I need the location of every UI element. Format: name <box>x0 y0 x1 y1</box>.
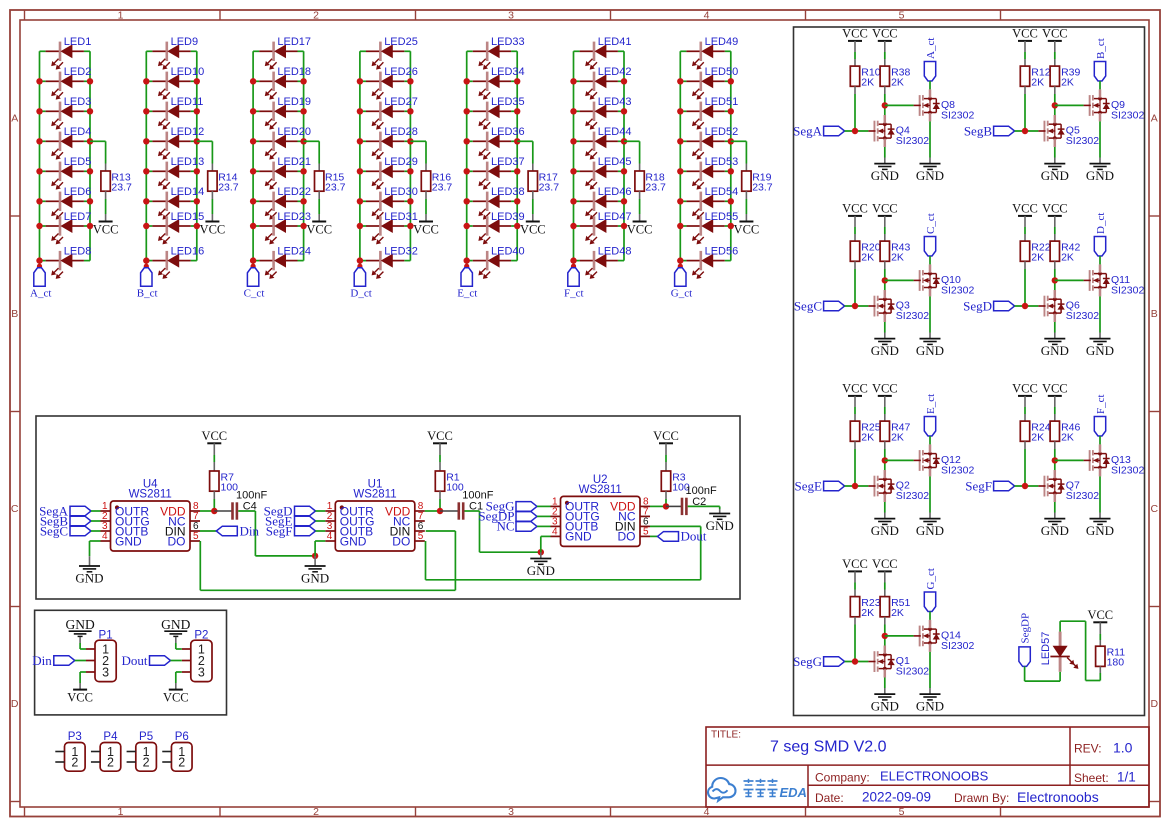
svg-text:2K: 2K <box>1031 252 1044 264</box>
svg-text:GND: GND <box>1041 168 1069 183</box>
svg-text:GND: GND <box>65 617 94 632</box>
svg-text:2022-09-09: 2022-09-09 <box>862 790 931 805</box>
svg-text:SegD: SegD <box>963 298 992 313</box>
svg-text:23.7: 23.7 <box>325 182 346 194</box>
svg-text:SI2302: SI2302 <box>1111 284 1144 296</box>
svg-text:Company:: Company: <box>815 771 870 785</box>
svg-text:1/1: 1/1 <box>1117 770 1136 785</box>
svg-text:Din: Din <box>32 653 52 668</box>
svg-text:3: 3 <box>102 665 109 679</box>
svg-text:A_ct: A_ct <box>30 288 51 300</box>
svg-text:SegA: SegA <box>793 123 823 138</box>
svg-text:2K: 2K <box>861 607 874 619</box>
svg-text:GND: GND <box>916 343 944 358</box>
svg-text:LED28: LED28 <box>384 126 418 138</box>
svg-text:LED25: LED25 <box>384 36 418 48</box>
svg-text:VCC: VCC <box>200 223 226 237</box>
svg-text:VCC: VCC <box>67 691 93 705</box>
svg-text:LED34: LED34 <box>491 66 525 78</box>
svg-text:DO: DO <box>618 530 636 544</box>
svg-text:100nF: 100nF <box>236 490 267 502</box>
svg-text:2: 2 <box>107 755 114 769</box>
svg-text:A: A <box>1151 113 1158 125</box>
svg-text:SI2302: SI2302 <box>1066 490 1099 502</box>
svg-text:C_ct: C_ct <box>244 288 265 300</box>
svg-text:GND: GND <box>1086 168 1114 183</box>
svg-text:B_ct: B_ct <box>1095 38 1107 59</box>
svg-text:D_ct: D_ct <box>350 288 371 300</box>
svg-text:LED50: LED50 <box>705 66 739 78</box>
svg-text:4: 4 <box>552 526 558 537</box>
svg-text:E_ct: E_ct <box>925 394 937 414</box>
svg-text:LED36: LED36 <box>491 126 525 138</box>
svg-text:LED35: LED35 <box>491 96 525 108</box>
svg-text:LED41: LED41 <box>598 36 632 48</box>
svg-text:C: C <box>11 503 19 515</box>
svg-text:B_ct: B_ct <box>137 288 158 300</box>
svg-text:5: 5 <box>418 531 424 542</box>
svg-text:GND: GND <box>916 523 944 538</box>
svg-text:GND: GND <box>1041 343 1069 358</box>
svg-text:REV:: REV: <box>1074 741 1102 755</box>
svg-text:3: 3 <box>508 806 514 818</box>
svg-text:2: 2 <box>143 755 150 769</box>
svg-text:LED29: LED29 <box>384 156 418 168</box>
svg-text:VCC: VCC <box>734 223 760 237</box>
svg-text:LED40: LED40 <box>491 245 525 257</box>
svg-text:LED43: LED43 <box>598 96 632 108</box>
svg-text:2: 2 <box>313 806 319 818</box>
svg-text:2K: 2K <box>1061 432 1074 444</box>
svg-text:GND: GND <box>161 617 190 632</box>
svg-text:VCC: VCC <box>93 223 119 237</box>
svg-text:F_ct: F_ct <box>1095 394 1107 414</box>
svg-text:1.0: 1.0 <box>1113 739 1133 755</box>
svg-text:2K: 2K <box>1061 252 1074 264</box>
svg-text:SegF: SegF <box>965 478 992 493</box>
svg-text:VCC: VCC <box>1012 202 1038 216</box>
svg-text:GND: GND <box>871 699 899 714</box>
svg-text:2K: 2K <box>891 432 904 444</box>
svg-text:VCC: VCC <box>201 429 227 443</box>
svg-text:LED20: LED20 <box>277 126 311 138</box>
svg-text:SI2302: SI2302 <box>896 666 929 678</box>
svg-text:SegDP: SegDP <box>1019 613 1031 644</box>
svg-text:SI2302: SI2302 <box>1111 464 1144 476</box>
svg-text:LED54: LED54 <box>705 186 739 198</box>
svg-text:SI2302: SI2302 <box>1111 109 1144 121</box>
svg-text:23.7: 23.7 <box>752 182 773 194</box>
svg-text:LED53: LED53 <box>705 156 739 168</box>
svg-text:TITLE:: TITLE: <box>711 730 741 741</box>
svg-text:B: B <box>11 308 18 320</box>
svg-text:VCC: VCC <box>653 429 679 443</box>
svg-text:LED11: LED11 <box>171 96 204 108</box>
svg-text:G_ct: G_ct <box>925 568 937 589</box>
svg-text:LED2: LED2 <box>64 66 92 78</box>
svg-text:VCC: VCC <box>627 223 653 237</box>
svg-text:LED17: LED17 <box>277 36 311 48</box>
svg-text:23.7: 23.7 <box>539 182 560 194</box>
svg-text:LED27: LED27 <box>384 96 418 108</box>
svg-text:2K: 2K <box>861 252 874 264</box>
svg-text:LED42: LED42 <box>598 66 632 78</box>
svg-text:5: 5 <box>643 526 649 537</box>
svg-text:WS2811: WS2811 <box>579 484 622 496</box>
svg-text:LED10: LED10 <box>171 66 205 78</box>
svg-text:2K: 2K <box>1031 77 1044 89</box>
svg-text:VCC: VCC <box>1042 27 1068 41</box>
svg-text:LED37: LED37 <box>491 156 525 168</box>
svg-text:Din: Din <box>240 523 260 538</box>
svg-text:G_ct: G_ct <box>671 288 692 300</box>
svg-text:VCC: VCC <box>163 691 189 705</box>
svg-text:NC: NC <box>496 519 514 534</box>
svg-text:VCC: VCC <box>842 27 868 41</box>
svg-text:A: A <box>11 113 18 125</box>
svg-text:Sheet:: Sheet: <box>1074 771 1109 785</box>
svg-text:P4: P4 <box>103 731 118 743</box>
svg-text:VCC: VCC <box>1012 27 1038 41</box>
svg-text:180: 180 <box>1107 657 1125 669</box>
svg-text:2K: 2K <box>861 432 874 444</box>
svg-text:4: 4 <box>704 9 710 21</box>
svg-text:23.7: 23.7 <box>218 182 239 194</box>
svg-text:2K: 2K <box>891 252 904 264</box>
svg-text:LED4: LED4 <box>64 126 92 138</box>
svg-text:LED3: LED3 <box>64 96 92 108</box>
svg-text:LED39: LED39 <box>491 211 525 223</box>
svg-text:SI2302: SI2302 <box>896 310 929 322</box>
svg-text:2: 2 <box>313 9 319 21</box>
svg-text:SI2302: SI2302 <box>941 284 974 296</box>
svg-text:Drawn By:: Drawn By: <box>954 791 1009 805</box>
svg-text:DO: DO <box>392 534 410 548</box>
svg-text:F_ct: F_ct <box>564 288 584 300</box>
svg-text:D: D <box>11 698 19 710</box>
svg-text:GND: GND <box>1086 343 1114 358</box>
svg-text:C_ct: C_ct <box>925 213 937 234</box>
svg-text:LED7: LED7 <box>64 211 92 223</box>
svg-text:LED9: LED9 <box>171 36 199 48</box>
svg-text:LED21: LED21 <box>277 156 311 168</box>
svg-text:23.7: 23.7 <box>432 182 453 194</box>
svg-text:4: 4 <box>327 531 333 542</box>
svg-text:SegC: SegC <box>40 523 68 538</box>
svg-text:GND: GND <box>1086 523 1114 538</box>
svg-text:2K: 2K <box>1031 432 1044 444</box>
svg-text:2K: 2K <box>1061 77 1074 89</box>
svg-text:C2: C2 <box>692 496 706 508</box>
svg-text:LED48: LED48 <box>598 245 632 257</box>
svg-text:LED49: LED49 <box>705 36 739 48</box>
svg-text:D: D <box>1151 698 1159 710</box>
svg-text:1: 1 <box>118 9 124 21</box>
svg-text:P1: P1 <box>99 630 113 642</box>
svg-text:LED8: LED8 <box>64 245 92 257</box>
svg-text:LED52: LED52 <box>705 126 739 138</box>
svg-text:Date:: Date: <box>815 791 844 805</box>
svg-text:SegB: SegB <box>964 123 993 138</box>
svg-text:GND: GND <box>565 530 592 544</box>
svg-text:Dout: Dout <box>122 653 148 668</box>
svg-text:VCC: VCC <box>413 223 439 237</box>
svg-text:LED46: LED46 <box>598 186 632 198</box>
svg-text:2K: 2K <box>891 77 904 89</box>
svg-text:LED31: LED31 <box>384 211 418 223</box>
svg-text:VCC: VCC <box>1042 202 1068 216</box>
svg-text:2: 2 <box>178 755 185 769</box>
svg-text:P2: P2 <box>194 630 208 642</box>
svg-text:LED23: LED23 <box>277 211 311 223</box>
svg-text:E_ct: E_ct <box>457 288 477 300</box>
svg-text:23.7: 23.7 <box>111 182 132 194</box>
svg-text:D_ct: D_ct <box>1095 213 1107 234</box>
svg-text:LED55: LED55 <box>705 211 739 223</box>
svg-text:VCC: VCC <box>872 557 898 571</box>
svg-text:LED24: LED24 <box>277 245 311 257</box>
svg-text:A_ct: A_ct <box>925 38 937 59</box>
svg-text:2K: 2K <box>861 77 874 89</box>
svg-text:SegE: SegE <box>795 478 823 493</box>
svg-text:100: 100 <box>446 482 464 494</box>
svg-text:LED22: LED22 <box>277 186 311 198</box>
svg-text:100nF: 100nF <box>686 485 717 497</box>
svg-text:C: C <box>1151 503 1159 515</box>
svg-text:LED45: LED45 <box>598 156 632 168</box>
svg-text:SI2302: SI2302 <box>896 135 929 147</box>
svg-text:WS2811: WS2811 <box>129 489 172 501</box>
svg-text:2: 2 <box>71 755 78 769</box>
svg-text:B: B <box>1151 308 1158 320</box>
svg-text:GND: GND <box>301 571 329 586</box>
svg-text:4: 4 <box>102 531 108 542</box>
svg-text:P6: P6 <box>175 731 189 743</box>
svg-text:WS2811: WS2811 <box>353 489 396 501</box>
svg-text:LED15: LED15 <box>171 211 205 223</box>
svg-text:VCC: VCC <box>427 429 453 443</box>
svg-text:LED18: LED18 <box>277 66 311 78</box>
svg-text:VCC: VCC <box>872 27 898 41</box>
svg-text:Dout: Dout <box>681 529 707 544</box>
svg-text:VCC: VCC <box>872 382 898 396</box>
svg-text:GND: GND <box>340 534 367 548</box>
svg-text:VCC: VCC <box>1087 608 1113 622</box>
svg-text:LED32: LED32 <box>384 245 418 257</box>
svg-text:C4: C4 <box>243 501 257 513</box>
svg-text:LED13: LED13 <box>171 156 205 168</box>
svg-text:2K: 2K <box>891 607 904 619</box>
svg-text:SI2302: SI2302 <box>941 109 974 121</box>
svg-text:LED16: LED16 <box>171 245 205 257</box>
svg-text:LED38: LED38 <box>491 186 525 198</box>
svg-text:LED6: LED6 <box>64 186 92 198</box>
svg-text:LED56: LED56 <box>705 245 739 257</box>
svg-text:5: 5 <box>899 9 905 21</box>
svg-text:GND: GND <box>75 571 103 586</box>
svg-text:LED14: LED14 <box>171 186 205 198</box>
svg-text:1: 1 <box>118 806 124 818</box>
svg-text:LED33: LED33 <box>491 36 525 48</box>
svg-text:LED12: LED12 <box>171 126 205 138</box>
svg-text:P5: P5 <box>139 731 153 743</box>
svg-text:LED30: LED30 <box>384 186 418 198</box>
svg-text:LED57: LED57 <box>1040 632 1052 666</box>
svg-text:VCC: VCC <box>306 223 332 237</box>
svg-text:LED44: LED44 <box>598 126 632 138</box>
svg-text:VCC: VCC <box>1042 382 1068 396</box>
svg-text:3: 3 <box>508 9 514 21</box>
svg-text:VCC: VCC <box>872 202 898 216</box>
svg-text:SegC: SegC <box>794 298 822 313</box>
svg-text:LED5: LED5 <box>64 156 92 168</box>
svg-text:7 seg SMD V2.0: 7 seg SMD V2.0 <box>770 739 887 756</box>
svg-text:Electronoobs: Electronoobs <box>1017 789 1099 805</box>
svg-text:ELECTRONOOBS: ELECTRONOOBS <box>880 769 989 784</box>
svg-text:GND: GND <box>706 518 734 533</box>
svg-text:VCC: VCC <box>842 382 868 396</box>
svg-text:GND: GND <box>115 534 142 548</box>
svg-text:GND: GND <box>916 168 944 183</box>
svg-text:P3: P3 <box>68 731 82 743</box>
svg-text:LED47: LED47 <box>598 211 632 223</box>
svg-text:SI2302: SI2302 <box>896 490 929 502</box>
svg-text:SI2302: SI2302 <box>941 464 974 476</box>
svg-text:LED1: LED1 <box>64 36 92 48</box>
svg-text:SegG: SegG <box>793 654 822 669</box>
svg-text:SI2302: SI2302 <box>1066 310 1099 322</box>
svg-text:SI2302: SI2302 <box>941 640 974 652</box>
svg-text:EDA: EDA <box>780 785 807 800</box>
svg-text:3: 3 <box>198 665 205 679</box>
svg-text:VCC: VCC <box>842 202 868 216</box>
svg-text:5: 5 <box>193 531 199 542</box>
svg-text:23.7: 23.7 <box>645 182 666 194</box>
svg-text:GND: GND <box>871 343 899 358</box>
svg-text:LED51: LED51 <box>705 96 739 108</box>
svg-text:VCC: VCC <box>842 557 868 571</box>
svg-text:GND: GND <box>871 168 899 183</box>
svg-text:LED26: LED26 <box>384 66 418 78</box>
svg-text:DO: DO <box>168 534 186 548</box>
svg-text:GND: GND <box>916 699 944 714</box>
svg-text:SegF: SegF <box>266 523 293 538</box>
svg-text:GND: GND <box>527 563 555 578</box>
svg-text:GND: GND <box>1041 523 1069 538</box>
svg-text:LED19: LED19 <box>277 96 311 108</box>
svg-text:GND: GND <box>871 523 899 538</box>
svg-text:VCC: VCC <box>520 223 546 237</box>
svg-text:VCC: VCC <box>1012 382 1038 396</box>
svg-text:SI2302: SI2302 <box>1066 135 1099 147</box>
